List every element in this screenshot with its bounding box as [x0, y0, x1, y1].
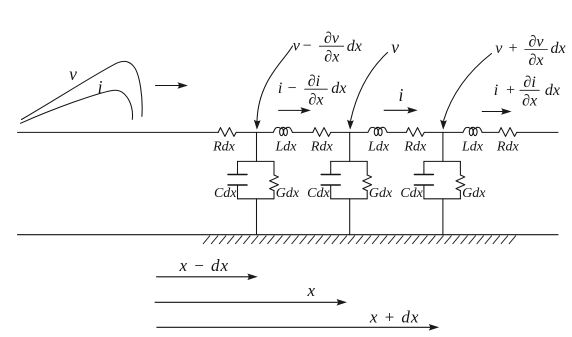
- svg-text:∂i: ∂i: [523, 74, 535, 91]
- svg-text:+: +: [505, 82, 516, 99]
- svg-text:Rdx: Rdx: [212, 140, 236, 155]
- svg-text:∂x: ∂x: [324, 49, 339, 66]
- svg-text:+: +: [508, 40, 519, 57]
- svg-text:dx: dx: [331, 80, 346, 97]
- svg-text:Rdx: Rdx: [403, 140, 427, 155]
- svg-text:−: −: [287, 80, 298, 97]
- svg-text:Rdx: Rdx: [496, 140, 520, 155]
- svg-text:i: i: [278, 80, 282, 97]
- svg-text:∂v: ∂v: [528, 33, 544, 50]
- svg-text:Rdx: Rdx: [310, 140, 334, 155]
- svg-text:Ldx: Ldx: [275, 140, 298, 155]
- svg-text:Gdx: Gdx: [462, 186, 486, 201]
- svg-text:Gdx: Gdx: [276, 186, 300, 201]
- svg-text:v: v: [391, 37, 399, 57]
- svg-text:∂x: ∂x: [308, 92, 323, 109]
- svg-text:v: v: [69, 64, 77, 84]
- svg-text:∂x: ∂x: [528, 52, 543, 69]
- svg-text:∂x: ∂x: [522, 93, 537, 110]
- svg-text:∂v: ∂v: [324, 30, 340, 47]
- svg-text:Cdx: Cdx: [214, 186, 237, 201]
- svg-text:i: i: [494, 82, 498, 99]
- svg-text:i: i: [398, 85, 403, 105]
- svg-text:dx: dx: [551, 40, 566, 57]
- svg-text:−: −: [302, 37, 313, 54]
- svg-text:Cdx: Cdx: [307, 186, 330, 201]
- svg-text:x: x: [307, 281, 316, 300]
- svg-text:Ldx: Ldx: [367, 140, 390, 155]
- svg-text:x + dx: x + dx: [369, 307, 420, 326]
- svg-text:Cdx: Cdx: [400, 186, 423, 201]
- svg-text:v: v: [495, 40, 503, 57]
- svg-text:i: i: [98, 77, 103, 97]
- svg-text:v: v: [293, 37, 301, 54]
- svg-text:dx: dx: [545, 82, 560, 99]
- svg-text:Gdx: Gdx: [369, 186, 393, 201]
- svg-text:∂i: ∂i: [308, 73, 320, 90]
- svg-text:dx: dx: [347, 38, 362, 55]
- svg-text:x − dx: x − dx: [179, 256, 230, 275]
- svg-text:Ldx: Ldx: [461, 140, 484, 155]
